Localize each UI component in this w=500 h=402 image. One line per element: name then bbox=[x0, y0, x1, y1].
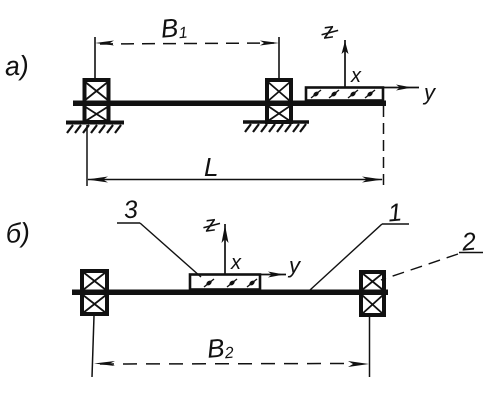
svg-text:а): а) bbox=[4, 50, 30, 82]
label 2 bbox=[459, 227, 483, 256]
z axis (diagram a) bbox=[344, 40, 346, 88]
dimension B1 arrow right bbox=[260, 41, 279, 46]
ground under right bearing (diagram a) bbox=[243, 122, 309, 132]
shaft (diagram a) bbox=[73, 101, 386, 107]
z label (diagram a) bbox=[319, 17, 339, 44]
svg-text:y: y bbox=[287, 253, 302, 278]
dimension B2 arrow left bbox=[94, 361, 115, 366]
svg-text:y: y bbox=[422, 80, 437, 105]
ground under left bearing (diagram a) bbox=[66, 123, 124, 134]
y axis (diagram a) bbox=[383, 87, 419, 89]
panel label b) bbox=[5, 217, 31, 249]
label 1 bbox=[382, 198, 409, 227]
hub hatch marks (diagram a) bbox=[311, 90, 375, 98]
dimension B1 arrow left bbox=[95, 41, 114, 46]
leader from 3 to hub bbox=[140, 223, 201, 277]
bearing right (diagram b) bbox=[361, 272, 384, 315]
hub hatch marks (diagram b) bbox=[204, 279, 257, 287]
dimension L arrow left bbox=[87, 177, 108, 183]
bearing left (diagram a) bbox=[84, 80, 109, 122]
label 3 bbox=[117, 195, 140, 224]
dimension L arrow right bbox=[362, 177, 383, 183]
leader from 1 to shaft bbox=[310, 224, 382, 290]
hub block (diagram b) bbox=[190, 275, 260, 290]
y axis (diagram b) bbox=[260, 274, 286, 276]
dimension B2 extension right bbox=[369, 317, 371, 377]
leader from 2 to bearing (dashed) bbox=[381, 254, 458, 280]
svg-text:L: L bbox=[204, 152, 218, 182]
dimension B1 dashed line bbox=[100, 43, 274, 44]
dimension L extension right (dashed) bbox=[383, 106, 385, 188]
dimension B2 dashed line bbox=[100, 363, 348, 366]
bearing right (diagram a) bbox=[267, 80, 291, 122]
z axis (diagram b) bbox=[224, 224, 226, 275]
panel label a) bbox=[4, 50, 30, 82]
z label (diagram b) bbox=[201, 210, 221, 237]
bearing left (diagram b) bbox=[82, 271, 107, 314]
dimension B2 extension left bbox=[92, 316, 94, 377]
dimension B1 extension line right bbox=[278, 37, 280, 79]
shaft (diagram b) bbox=[72, 290, 388, 296]
svg-text:3: 3 bbox=[123, 195, 139, 224]
hub block (diagram a) bbox=[306, 88, 383, 101]
dimension L line bbox=[88, 179, 382, 181]
dimension L extension left bbox=[86, 125, 88, 186]
dimension B1 extension line left bbox=[94, 37, 96, 79]
svg-text:б): б) bbox=[5, 217, 31, 249]
dimension B2 arrow right bbox=[348, 361, 369, 367]
svg-text:1: 1 bbox=[387, 198, 403, 227]
svg-text:x: x bbox=[230, 252, 242, 274]
svg-text:x: x bbox=[350, 65, 362, 87]
